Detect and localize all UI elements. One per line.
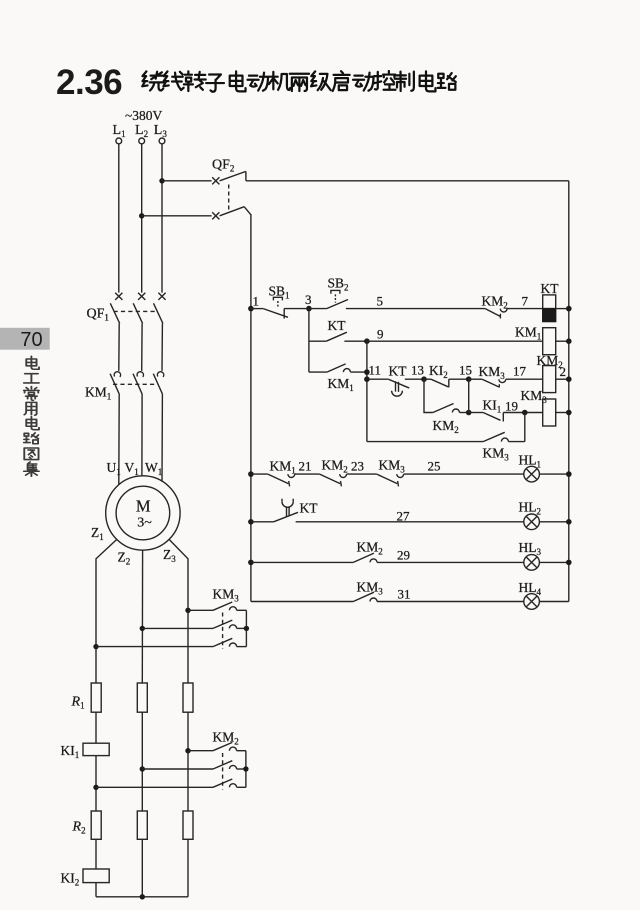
svg-text:27: 27 xyxy=(397,509,411,524)
svg-text:31: 31 xyxy=(398,587,411,602)
node 19 junction xyxy=(522,410,528,416)
svg-text:KT: KT xyxy=(389,364,408,379)
svg-text:Z3: Z3 xyxy=(163,547,176,564)
node rail row6 junction xyxy=(566,471,572,477)
relay KI2 heater box xyxy=(83,869,109,883)
breaker QF2 linkage (dashed) xyxy=(228,185,230,213)
svg-text:11: 11 xyxy=(369,363,382,378)
terminal L3 xyxy=(159,138,165,144)
wire L3 vertical xyxy=(161,144,163,293)
svg-text:25: 25 xyxy=(428,459,441,474)
wire QF1 to KM1 phase B xyxy=(141,323,143,371)
node KM1-row junction xyxy=(364,369,370,375)
lamp HL4 xyxy=(524,594,569,610)
contact KM2 NO (row 4) xyxy=(433,404,469,413)
wire QF1 to KM1 phase C xyxy=(161,323,163,371)
resistor R2 phase B box xyxy=(137,811,147,839)
svg-text:KI1: KI1 xyxy=(61,743,80,760)
svg-text:L3: L3 xyxy=(154,123,168,139)
svg-text:KM3: KM3 xyxy=(213,587,240,604)
node 13 junction xyxy=(421,376,427,382)
svg-text:R1: R1 xyxy=(71,695,85,711)
svg-text:5: 5 xyxy=(377,294,384,309)
svg-text:2: 2 xyxy=(560,364,567,379)
svg-text:KM2: KM2 xyxy=(322,458,348,475)
breaker QF1 linkage (dashed) xyxy=(114,310,159,312)
contactor KM3 rotor contact A xyxy=(188,602,246,610)
contact KT delayed NC (row 3) xyxy=(367,379,424,396)
wire right control rail xyxy=(568,181,570,602)
svg-text:QF2: QF2 xyxy=(212,158,234,174)
wire KM1 to motor U1 xyxy=(118,394,120,485)
relay contact KI1 NC xyxy=(469,413,543,422)
svg-text:15: 15 xyxy=(459,363,472,378)
wire left control rail xyxy=(250,214,252,602)
wire row2 to KM1 coil xyxy=(367,340,543,342)
node row7-left junction xyxy=(248,519,254,525)
coil KM1 xyxy=(543,328,569,355)
breaker QF2 pole 1 xyxy=(162,171,246,184)
svg-text:9: 9 xyxy=(377,327,384,342)
svg-text:KT: KT xyxy=(541,281,560,296)
svg-text:70: 70 xyxy=(20,329,42,351)
node row6-left junction xyxy=(248,471,254,477)
resistor R1 phase A box xyxy=(91,683,101,712)
resistor R1 phase B box xyxy=(137,683,147,712)
node rail row7 junction xyxy=(566,519,572,525)
node L2-QF2 junction xyxy=(139,213,144,218)
node KM2 rotor link junction xyxy=(243,766,248,771)
contactor KM2 rotor contact B xyxy=(142,761,246,769)
svg-text:HL4: HL4 xyxy=(519,580,542,597)
coil KT (time relay) xyxy=(543,295,569,322)
contactor KM1 linkage (dashed) xyxy=(113,383,158,385)
svg-text:SB2: SB2 xyxy=(328,276,349,293)
wire R1 to R2 phase C xyxy=(187,712,189,811)
breaker QF1 pole 2 xyxy=(133,293,145,324)
contact KM1 NC (lamp row) xyxy=(251,474,320,486)
svg-text:21: 21 xyxy=(299,459,312,474)
svg-text:KM3: KM3 xyxy=(483,446,510,463)
breaker QF1 pole 3 xyxy=(154,293,166,324)
node 3 junction xyxy=(306,306,312,312)
svg-text:QF1: QF1 xyxy=(87,307,109,323)
svg-text:V1: V1 xyxy=(125,460,139,477)
svg-text:7: 7 xyxy=(522,294,529,309)
svg-text:KM1: KM1 xyxy=(85,385,111,402)
pushbutton SB1 (stop, NC) xyxy=(251,297,306,318)
breaker QF2 pole 2 xyxy=(142,207,251,220)
node rail row3 junction xyxy=(566,376,572,382)
pushbutton SB2 (start, NO) xyxy=(309,290,485,308)
lamp HL1 xyxy=(524,466,569,482)
title 绕线转子电动机两级启动控制电路 xyxy=(142,71,456,92)
wire KM1 to motor W1 xyxy=(161,394,163,482)
contact KT NO (row 2) xyxy=(309,332,367,341)
svg-text:KM1: KM1 xyxy=(515,325,541,342)
svg-text:Z1: Z1 xyxy=(91,525,104,542)
node KM3 rotor row A junction xyxy=(185,608,190,613)
contact KM3 NC (row 3) xyxy=(469,379,543,387)
relay contact KI2 NC xyxy=(424,379,469,387)
svg-text:17: 17 xyxy=(513,364,527,379)
svg-text:KI2: KI2 xyxy=(61,871,80,888)
contact KM1 NO self-hold xyxy=(309,364,367,372)
svg-text:KT: KT xyxy=(300,501,319,516)
svg-text:KM2: KM2 xyxy=(213,730,239,747)
contact KT delayed NO (lamp row) xyxy=(251,499,524,522)
contactor KM3 rotor contact C xyxy=(96,638,246,646)
node 15 junction xyxy=(466,376,472,382)
svg-text:19: 19 xyxy=(505,399,518,414)
svg-text:KI1: KI1 xyxy=(483,398,502,415)
svg-text:HL2: HL2 xyxy=(519,500,542,517)
node rail row2 junction xyxy=(566,338,572,344)
svg-text:KT: KT xyxy=(328,318,347,333)
contactor KM3 rotor contact B xyxy=(142,620,246,628)
node KM2 rotor row B junction xyxy=(140,766,145,771)
node L3-QF2 junction xyxy=(159,178,164,183)
node KM3 rotor row B junction xyxy=(140,626,145,631)
wire R2 to KI2 xyxy=(95,839,97,869)
svg-text:KM1: KM1 xyxy=(270,459,296,476)
wire R2 to bus phase B xyxy=(141,839,143,897)
svg-text:M: M xyxy=(136,497,151,516)
svg-text:KM1: KM1 xyxy=(328,376,354,393)
contactor KM1 main pole 1 xyxy=(110,372,120,394)
wire KM3 rotor right link xyxy=(245,610,247,646)
node 11 junction xyxy=(364,376,370,382)
sidebar text 电工常用电路图集 xyxy=(24,356,39,476)
wire KI2 to bottom bus xyxy=(95,883,97,897)
contactor KM1 main pole 2 xyxy=(133,372,143,394)
wire QF1 to KM1 phase A xyxy=(118,323,120,371)
contact KM2 NC (lamp row) xyxy=(320,474,377,486)
svg-text:R2: R2 xyxy=(72,820,86,836)
wire KI1 to R2 xyxy=(95,756,97,811)
wire R1 to KI1 xyxy=(95,712,97,743)
svg-text:3: 3 xyxy=(305,292,312,307)
relay KI1 heater box xyxy=(83,743,109,755)
svg-text:KI2: KI2 xyxy=(429,363,448,380)
svg-text:13: 13 xyxy=(411,363,424,378)
coil KM2 xyxy=(543,366,569,393)
contactor KM3 rotor linkage (dashed) xyxy=(222,613,224,650)
wire node15 drop xyxy=(468,379,470,412)
node KM2 rotor row C junction xyxy=(93,785,98,790)
node 9-branch junction xyxy=(364,338,370,344)
svg-text:W1: W1 xyxy=(145,460,162,477)
svg-text:1: 1 xyxy=(253,294,260,309)
svg-text:Z2: Z2 xyxy=(118,550,131,567)
wire node3 drop xyxy=(308,309,310,373)
wire bottom bus xyxy=(96,896,188,898)
wire QF2 top to right rail xyxy=(246,180,569,182)
svg-text:L1: L1 xyxy=(113,123,126,139)
svg-text:L2: L2 xyxy=(135,123,148,139)
svg-text:KM2: KM2 xyxy=(482,294,508,311)
lamp HL3 xyxy=(524,555,569,571)
svg-text:KM3: KM3 xyxy=(357,580,384,597)
contact KM3 NO (lamp row) xyxy=(251,592,524,601)
wire node13 drop xyxy=(424,379,433,412)
node KM3 rotor row C junction xyxy=(93,644,98,649)
svg-text:KM2: KM2 xyxy=(433,418,459,435)
wire R2 to bus phase C xyxy=(187,839,189,897)
contact KM2 NC (row 1) xyxy=(485,309,543,319)
sidebar page box xyxy=(0,328,50,350)
contact KM2 NO (lamp row) xyxy=(251,553,524,562)
motor M inner circle xyxy=(116,486,170,540)
contactor KM2 rotor contact A xyxy=(188,742,246,750)
node rail row1 junction xyxy=(566,306,572,312)
motor M outer circle xyxy=(106,476,180,550)
svg-text:KM2: KM2 xyxy=(357,540,383,557)
wire L2 vertical xyxy=(141,144,143,293)
wire node11 drop xyxy=(366,341,368,441)
resistor R2 phase A box xyxy=(91,811,101,839)
wire KM2 rotor right link xyxy=(245,751,247,788)
breaker QF1 pole 1 xyxy=(110,293,122,324)
node KM2 rotor row A junction xyxy=(185,748,190,753)
node 1 junction xyxy=(248,306,254,312)
wire L1 vertical xyxy=(118,144,120,293)
svg-text:HL3: HL3 xyxy=(519,540,542,557)
node KM3 rotor link junction xyxy=(244,626,249,631)
wire rotor lead Z3 xyxy=(169,540,188,684)
node row8-left junction xyxy=(248,560,254,566)
node 15-row4 junction xyxy=(466,410,472,416)
contactor KM2 rotor linkage (dashed) xyxy=(222,753,224,790)
node bottom bus junction xyxy=(140,894,145,899)
resistor R1 phase C box xyxy=(183,683,193,712)
wire KM1 to motor V1 xyxy=(141,394,143,476)
terminal L2 xyxy=(139,138,145,144)
svg-text:SB1: SB1 xyxy=(269,284,290,301)
contact KM3 NC (lamp row) xyxy=(377,474,524,486)
node rail row4 junction xyxy=(566,410,572,416)
contactor KM2 rotor contact C xyxy=(96,779,246,787)
svg-text:29: 29 xyxy=(397,548,410,563)
wire R1 to R2 phase B xyxy=(141,712,143,811)
contactor KM1 main pole 3 xyxy=(153,372,163,394)
contact KM3 NO self-hold (row 5) xyxy=(367,432,525,441)
svg-text:~380V: ~380V xyxy=(125,108,163,123)
svg-text:2.36: 2.36 xyxy=(56,63,122,102)
wire node19 drop xyxy=(524,413,526,442)
coil KM3 xyxy=(543,399,569,426)
svg-text:KM3: KM3 xyxy=(479,364,506,381)
svg-text:KM3: KM3 xyxy=(379,458,406,475)
terminal L1 xyxy=(116,138,122,144)
resistor R2 phase C box xyxy=(183,811,193,839)
svg-text:HL1: HL1 xyxy=(519,453,542,470)
lamp HL2 xyxy=(524,514,569,530)
wire rotor lead Z1 xyxy=(96,540,117,684)
node rail row8 junction xyxy=(566,560,572,566)
wire rotor lead Z2 xyxy=(141,550,143,683)
svg-text:23: 23 xyxy=(351,459,364,474)
svg-text:3~: 3~ xyxy=(137,516,152,531)
